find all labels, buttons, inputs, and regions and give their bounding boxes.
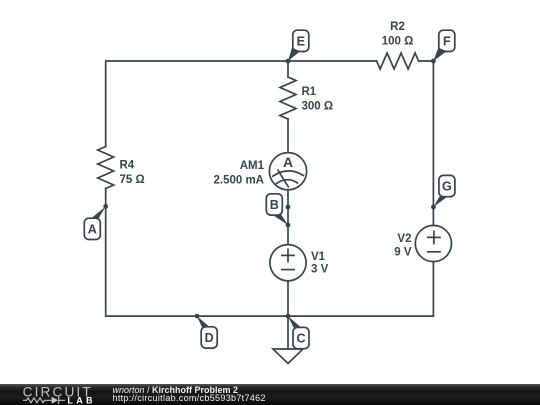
node flag C: [288, 316, 309, 349]
svg-text:R2: R2: [390, 21, 405, 33]
svg-text:V1: V1: [311, 251, 326, 263]
wire: ammeter AM1 bottom through node B to V1 + terminal: [287, 190, 289, 245]
wire: left rail top segment + top rail to node E: [106, 61, 288, 147]
junction dot node E: [286, 59, 291, 64]
svg-text:A: A: [283, 154, 293, 170]
V2 plus symbol: [428, 231, 440, 243]
node flag E: [288, 30, 309, 61]
svg-text:300 Ω: 300 Ω: [302, 101, 334, 113]
ammeter AM1 needle: [278, 170, 288, 187]
svg-text:D: D: [205, 331, 214, 345]
V1 minus symbol: [282, 269, 294, 271]
svg-text:75 Ω: 75 Ω: [120, 174, 145, 186]
svg-text:E: E: [297, 35, 305, 49]
ground symbol: [273, 349, 303, 364]
node flag G: [433, 175, 455, 207]
wire: node C down to ground: [287, 316, 289, 349]
junction dot node B: [286, 223, 291, 228]
resistor R2: [377, 53, 419, 69]
voltage source V2 circle: [415, 225, 451, 261]
wire: right rail from node F through node G to V2 + terminal: [432, 61, 434, 226]
svg-text:2.500 mA: 2.500 mA: [213, 175, 264, 187]
resistor R1: [280, 77, 296, 119]
svg-text:F: F: [443, 35, 451, 49]
svg-text:R4: R4: [120, 160, 135, 172]
svg-text:100 Ω: 100 Ω: [382, 36, 414, 48]
node flag D: [197, 316, 217, 348]
junction dot node C: [286, 314, 291, 319]
V1 plus symbol: [282, 249, 294, 261]
wire: R2 right terminal to node F: [419, 60, 434, 62]
node flag A: [84, 207, 105, 240]
wire: R1 bottom terminal to ammeter AM1 top: [287, 119, 289, 153]
footer credit text: [113, 386, 266, 404]
svg-text:B: B: [270, 198, 279, 212]
junction dot node A: [103, 204, 108, 209]
wire: V1 - terminal down to node C: [287, 281, 289, 316]
svg-text:LAB: LAB: [67, 395, 95, 405]
svg-text:G: G: [442, 180, 452, 194]
junction dot node G: [431, 205, 436, 210]
svg-text:9 V: 9 V: [394, 247, 412, 259]
junction dot node F: [431, 59, 436, 64]
svg-text:C: C: [296, 332, 305, 346]
node flag F: [433, 30, 454, 61]
resistor R4: [98, 147, 114, 189]
wire: V2 - terminal to bottom-right corner and bottom rail to node C: [288, 262, 433, 317]
svg-text:R1: R1: [302, 86, 317, 98]
voltage source V1 circle: [270, 245, 306, 281]
wire: bottom rail node D to bottom-left corner up to node A: [106, 207, 197, 317]
ammeter AM1 meter scale arcs: [273, 171, 304, 183]
svg-text:3 V: 3 V: [311, 264, 329, 276]
footer bar: [0, 384, 540, 405]
junction dot ammeter AM1 bottom terminal: [286, 205, 291, 210]
node flag B: [266, 194, 288, 225]
wire: node A up to R4 bottom terminal: [105, 189, 107, 207]
junction dot node D: [195, 314, 200, 319]
wire: top rail node E to R2 left terminal: [288, 60, 377, 62]
CircuitLab logo: [0, 384, 100, 405]
V2 minus symbol: [428, 251, 440, 253]
svg-text:A: A: [88, 223, 97, 237]
ammeter AM1 circle: [269, 153, 306, 190]
svg-text:AM1: AM1: [240, 160, 265, 172]
wire: node E down to R1 top terminal: [287, 61, 289, 77]
wire: bottom rail node C to node D: [197, 315, 288, 317]
svg-text:V2: V2: [397, 233, 411, 245]
